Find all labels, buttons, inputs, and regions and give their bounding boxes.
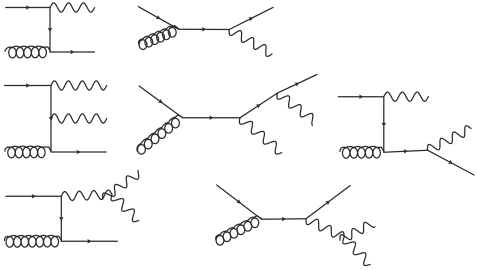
diagram 7: quark propagator (horizontal): [262, 218, 307, 220]
diagram 6: photon wavy branch (upper): [103, 170, 139, 199]
diagram 7: photon wavy line: [306, 219, 344, 238]
diagram 5: incoming quark line: [338, 96, 384, 98]
diagram 1: outgoing quark line: [50, 51, 95, 53]
diagram 5: photon wavy line (upper): [384, 92, 429, 101]
diagram 7: photon wavy branch (upper): [340, 222, 375, 240]
diagram 3: gluon coil: [5, 146, 51, 151]
diagram 7: outgoing quark line: [306, 186, 350, 219]
diagram 5: photon wavy line (right): [427, 126, 471, 150]
diagram 6: photon wavy branch (lower): [111, 195, 139, 222]
diagram 4: gluon coil: [137, 115, 182, 151]
diagram 2: incoming quark line: [138, 7, 178, 30]
diagram 3: photon wavy line (lower): [51, 114, 107, 123]
diagram 5: outgoing quark line: [428, 150, 475, 175]
diagram 2: photon wavy line: [229, 30, 272, 57]
diagram 5: gluon coil: [340, 146, 384, 151]
diagram 4: photon wavy line (upper): [277, 93, 313, 125]
diagram 3: outgoing quark line: [51, 151, 106, 153]
diagram 2: quark propagator (horizontal): [179, 28, 230, 30]
diagram 6: photon wavy line (horizontal): [61, 190, 112, 200]
diagram 1: gluon coil: [5, 46, 50, 51]
diagram 1: photon wavy line: [50, 3, 95, 12]
diagram 7: photon wavy branch (lower): [343, 238, 370, 266]
diagram 5: quark propagator (horizontal): [384, 150, 428, 152]
diagram 3: quark propagator (vertical): [50, 86, 52, 153]
diagram 6: quark propagator (vertical): [60, 196, 62, 241]
diagram 4: outgoing quark line: [277, 75, 317, 94]
diagram 4: quark propagator (diagonal): [240, 93, 277, 118]
diagram 7: gluon coil: [216, 216, 262, 241]
diagram 4: quark propagator (horizontal): [183, 117, 240, 119]
diagram 1: quark propagator (vertical): [49, 8, 51, 53]
diagram 3: incoming quark line: [5, 85, 52, 87]
diagram 1: incoming quark line: [6, 7, 50, 9]
diagram 4: incoming quark line: [139, 86, 183, 118]
diagram 5: quark propagator (vertical): [383, 97, 385, 153]
diagram 6: outgoing quark line: [61, 240, 117, 242]
diagram 6: gluon coil: [4, 235, 61, 240]
diagram 3: photon wavy line (upper): [51, 81, 107, 90]
diagram 2: gluon coil: [139, 26, 179, 45]
diagram 2: outgoing quark line: [229, 7, 273, 29]
diagram 4: photon wavy line (lower): [239, 118, 281, 154]
diagram 6: incoming quark line: [6, 195, 61, 197]
diagram 7: incoming quark line: [217, 185, 262, 219]
